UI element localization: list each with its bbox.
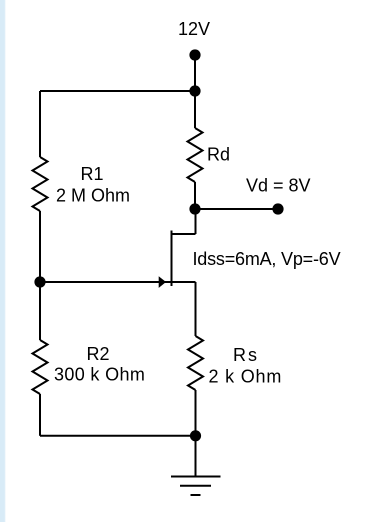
wire: JFET source horizontal <box>172 281 196 283</box>
svg-text:Rd: Rd <box>207 145 230 165</box>
resistor Rd <box>188 128 203 182</box>
wire: drain node down to JFET drain <box>195 209 197 234</box>
left blue stripe <box>0 0 7 522</box>
wire: drain node to Vd terminal <box>195 208 278 210</box>
svg-text:2 M Ohm: 2 M Ohm <box>56 186 130 206</box>
svg-text:R2: R2 <box>87 344 110 364</box>
wire: R2 bottom to bottom rail <box>39 394 41 436</box>
wire: R1 bottom to gate node <box>39 211 41 282</box>
svg-text:2 k Ohm: 2 k Ohm <box>209 367 283 387</box>
svg-text:Rs: Rs <box>233 345 259 365</box>
svg-text:300 k Ohm: 300 k Ohm <box>54 365 145 385</box>
wire: Rd bottom to drain node <box>194 182 196 209</box>
node drain junction <box>189 203 200 214</box>
wire: bottom junction to ground <box>195 436 197 477</box>
wire: bottom horizontal rail <box>40 435 195 437</box>
wire: left rail top (to R1) <box>39 91 41 157</box>
node Vd terminal <box>272 203 283 214</box>
svg-text:Idss=6mA, Vp=-6V: Idss=6mA, Vp=-6V <box>193 249 341 269</box>
wire: gate node to R2 <box>39 282 41 340</box>
wire: 12V terminal to top junction <box>194 55 196 91</box>
transistor Q1 JFET channel bar <box>171 231 173 287</box>
wire: gate wire from gate node to channel <box>40 281 172 283</box>
svg-text:12V: 12V <box>178 19 210 39</box>
node gate junction <box>34 276 45 287</box>
ground <box>171 476 221 478</box>
svg-text:R1: R1 <box>81 164 104 184</box>
wire: top horizontal rail <box>40 90 195 92</box>
wire: Rs bottom to bottom rail <box>195 390 197 436</box>
wire: JFET source down to Rs <box>195 282 197 336</box>
resistor Rs <box>188 336 203 390</box>
svg-text:Vd = 8V: Vd = 8V <box>246 176 311 196</box>
transistor Q1 gate arrow <box>159 276 166 288</box>
resistor R2 <box>33 340 48 394</box>
node bottom junction <box>190 430 201 441</box>
wire: top junction to Rd <box>194 91 196 128</box>
node top junction <box>189 85 200 96</box>
node 12V terminal <box>189 49 200 60</box>
resistor R1 <box>33 157 48 211</box>
wire: JFET drain horizontal <box>172 233 196 235</box>
